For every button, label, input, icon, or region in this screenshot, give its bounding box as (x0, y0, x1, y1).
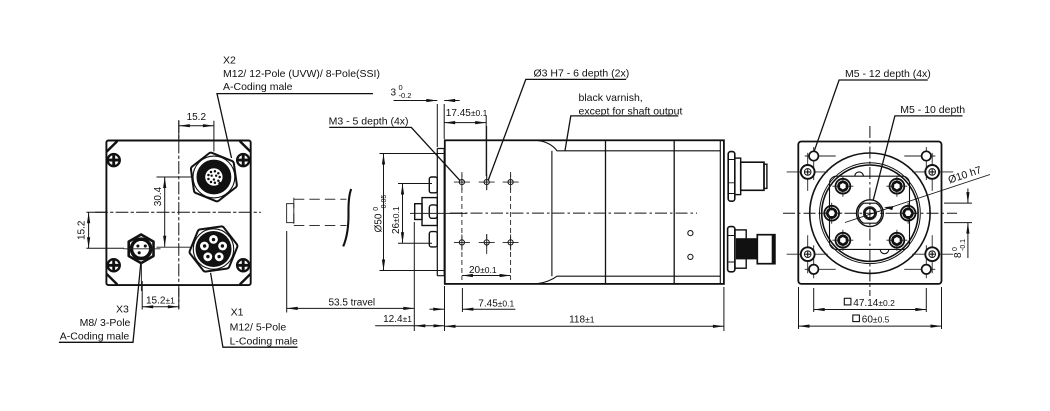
body division line 2 (605, 140, 607, 284)
svg-text:15.2: 15.2 (77, 220, 88, 240)
svg-text:47.14±0.2: 47.14±0.2 (853, 298, 895, 309)
svg-text:-0.05: -0.05 (381, 195, 388, 211)
dimension 15.2 (top) (179, 121, 214, 152)
svg-text:7.45±0.1: 7.45±0.1 (478, 298, 514, 309)
middle centerline (450, 212, 697, 214)
screw bottom-right (237, 259, 249, 271)
dimension 8 -0.1 (944, 189, 972, 259)
chamfer mark top-left (107, 142, 117, 152)
index bump top (855, 172, 864, 176)
rear connector X2 side: barrel (741, 162, 764, 190)
bolt screws (6x socket head) (821, 176, 918, 251)
svg-text:15.2±1: 15.2±1 (146, 295, 175, 306)
corner screw top-right (912, 153, 953, 191)
leader Ø10 h7 (845, 175, 990, 223)
rear connector X1 side: barrel (757, 235, 775, 264)
label X2 (223, 55, 380, 94)
dimension 17.45±0.1 (444, 116, 486, 176)
corner screw bottom-right (912, 235, 953, 273)
svg-text:A-Coding male: A-Coding male (223, 81, 293, 93)
svg-text:X2: X2 (223, 55, 236, 67)
corner hole M5-12 top-right (904, 147, 935, 180)
M3 hole crosshairs (454, 174, 519, 250)
svg-text:3: 3 (390, 88, 396, 99)
connector X1 (M12 5-pole) (190, 226, 238, 271)
corner hole M5-12 bottom-right (904, 245, 935, 278)
screw bottom-left (108, 259, 120, 271)
rear connector X2 side: end ring (764, 164, 767, 188)
screw top-right (237, 154, 249, 166)
svg-text:15.2: 15.2 (187, 112, 207, 123)
index bump bottom (880, 249, 889, 253)
rear connector X1 side: cylinder (735, 230, 746, 268)
svg-text:M8/ 3-Pole: M8/ 3-Pole (80, 317, 131, 329)
carriage tab middle block (422, 198, 437, 226)
label X1 (230, 307, 298, 348)
M3 hole column lines (462, 126, 511, 280)
bolt screw left (821, 203, 842, 224)
dimension 60±0.5 (799, 287, 942, 329)
carriage square profile (830, 176, 910, 249)
svg-text:12.4±1: 12.4±1 (383, 314, 412, 325)
rear connector X2 side: step (735, 158, 741, 195)
body division line 1 (551, 151, 553, 276)
dimension 26±0.1 (398, 184, 432, 244)
chamfer mark bottom-right (240, 274, 250, 284)
bolt screw right (898, 203, 919, 224)
bolt screw bottom-left (832, 230, 853, 251)
rear connector X1 side: hex nut (728, 227, 747, 272)
connector X2 (M12 12-pole) (191, 153, 237, 202)
svg-text:-0.1: -0.1 (960, 239, 967, 251)
svg-text:30.4: 30.4 (153, 186, 164, 206)
phantom shaft end cap (287, 204, 294, 223)
dimension Ø50 (380, 154, 445, 271)
carriage tab middle nose (415, 204, 422, 220)
left view body square (106, 141, 250, 286)
carriage tab top (429, 177, 437, 193)
X3 crosshair (124, 249, 161, 291)
dimension 3 -0.2 (394, 101, 460, 148)
svg-text:118±1: 118±1 (569, 314, 595, 325)
svg-text:8: 8 (953, 252, 964, 258)
horizontal centerline (96, 211, 261, 213)
dimension 53.5 travel (287, 222, 415, 331)
rear small hole upper (688, 231, 693, 236)
corner screw bottom-left (787, 235, 828, 273)
label X3 (60, 304, 131, 343)
M3 holes top row (459, 180, 513, 245)
central M5 thread circles (863, 207, 876, 220)
carriage crosshair (410, 212, 467, 214)
svg-text:L-Coding male: L-Coding male (230, 335, 298, 347)
dimension 30.4 (vertical) (157, 177, 194, 247)
svg-text:0: 0 (952, 247, 959, 251)
dimension 20±0.1 (462, 275, 511, 277)
svg-text:20±0.1: 20±0.1 (469, 265, 497, 276)
svg-text:Ø50: Ø50 (374, 213, 385, 232)
dimension 12.4±1 (375, 325, 444, 327)
rear small hole lower (688, 254, 693, 259)
connector X3 (M8 3-pole) (129, 235, 154, 264)
bolt screw top-right (886, 176, 907, 197)
rear cap line (719, 140, 721, 284)
varnish edge top (538, 141, 721, 151)
corner hole M5-12 top-left (805, 147, 836, 180)
rear connector X1 side: threaded section (736, 238, 757, 259)
screw top-left (108, 154, 120, 166)
svg-text:X3: X3 (116, 304, 129, 316)
svg-text:black varnish,: black varnish, (579, 92, 643, 104)
svg-text:M5 - 12 depth (4x): M5 - 12 depth (4x) (845, 68, 931, 80)
central shaft double-D (858, 203, 882, 223)
dimension 15.2 (left vertical) (86, 212, 124, 248)
front plate (437, 149, 444, 276)
corner hole M5-12 bottom-left (805, 245, 836, 278)
rear connector X1 side: end band (772, 235, 775, 264)
chamfer mark bottom-left (107, 274, 117, 284)
svg-text:60±0.5: 60±0.5 (862, 314, 890, 325)
svg-text:M12/ 12-Pole (UVW)/ 8-Pole(SSI: M12/ 12-Pole (UVW)/ 8-Pole(SSI) (223, 68, 380, 80)
dimension 118±1 (445, 287, 724, 331)
body outline (445, 140, 724, 284)
svg-text:M12/ 5-Pole: M12/ 5-Pole (230, 322, 287, 334)
corner screw top-left (787, 153, 828, 191)
flange recess double circle (820, 163, 921, 264)
svg-text:53.5 travel: 53.5 travel (328, 298, 375, 309)
svg-text:M5 - 10 depth: M5 - 10 depth (900, 104, 965, 116)
dimension 15.2±1 (bottom) (142, 281, 179, 310)
rear connector X2 side: hex nut (728, 152, 767, 202)
carriage tab bottom (429, 232, 437, 247)
svg-text:0: 0 (373, 207, 380, 211)
dimension 7.45±0.1 (430, 286, 516, 331)
central hub outer circle (857, 200, 884, 227)
svg-text:M3 - 5 depth (4x): M3 - 5 depth (4x) (329, 116, 409, 128)
svg-text:26±0.1: 26±0.1 (391, 206, 402, 234)
varnish edge bottom (538, 276, 721, 283)
body division line 3 (673, 140, 675, 284)
vertical centerline (178, 121, 180, 309)
bolt screw top-left (832, 176, 853, 197)
svg-text:X1: X1 (231, 307, 244, 319)
chamfer mark top-right (240, 142, 250, 152)
right view centerlines (783, 126, 957, 296)
shaft break curve (343, 189, 351, 246)
flange outer circle (810, 153, 930, 273)
phantom shaft dashed outline (294, 198, 347, 227)
svg-text:17.45±0.1: 17.45±0.1 (446, 108, 488, 119)
right view body square (798, 142, 941, 284)
bolt screw bottom-right (886, 230, 907, 251)
dimension 47.14±0.2 (814, 288, 927, 312)
carriage tab middle tongue (429, 205, 437, 218)
svg-text:-0.2: -0.2 (399, 91, 412, 100)
svg-text:A-Coding male: A-Coding male (60, 330, 130, 342)
svg-text:Ø3 H7 - 6 depth (2x): Ø3 H7 - 6 depth (2x) (534, 68, 630, 80)
